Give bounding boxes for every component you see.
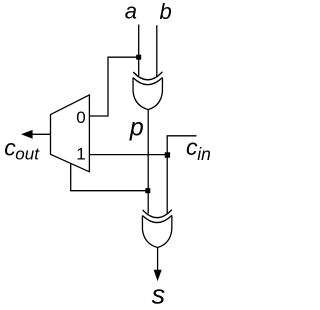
svg-text:1: 1 bbox=[76, 145, 85, 164]
svg-text:out: out bbox=[15, 144, 40, 163]
wire a (input a vertical) bbox=[138, 25, 140, 77]
multiplexer (2:1 mux trapezoid) bbox=[51, 95, 90, 172]
xor gate U2 (p xor c_in = s), pointing down bbox=[142, 210, 172, 248]
wire s output with arrow bbox=[157, 247, 159, 271]
svg-text:p: p bbox=[129, 114, 144, 142]
wire mux input 1 from c_in junction bbox=[89, 154, 167, 156]
wire mux select from bottom edge down then right to p line bbox=[71, 164, 148, 191]
wire from a-junction to mux input 0 bbox=[89, 57, 138, 116]
svg-text:a: a bbox=[125, 0, 137, 23]
node junction select / p line bbox=[145, 188, 150, 193]
wire c_out with arrow bbox=[32, 133, 51, 135]
xor gate U1 (a xor b = p), pointing down bbox=[133, 72, 163, 110]
node junction on a wire bbox=[136, 55, 141, 60]
svg-text:b: b bbox=[160, 0, 172, 24]
svg-text:0: 0 bbox=[76, 108, 85, 127]
wire p (xor1 output down to xor2) bbox=[147, 109, 149, 213]
node junction c_in / mux input 1 bbox=[165, 152, 170, 157]
svg-text:c: c bbox=[186, 134, 198, 160]
wire c_in stub and drop to XOR2 bbox=[167, 136, 196, 214]
wire b (input b vertical) bbox=[156, 25, 158, 76]
svg-text:in: in bbox=[197, 144, 211, 164]
svg-text:s: s bbox=[152, 280, 166, 310]
